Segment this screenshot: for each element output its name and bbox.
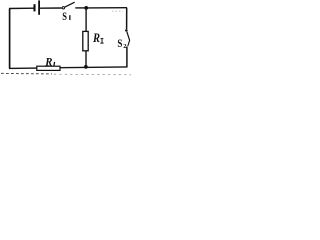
wire switch S1 to node A: [75, 7, 86, 9]
wire right vertical upper: [126, 8, 128, 29]
svg-text:R: R: [92, 31, 100, 45]
label S1: [62, 11, 70, 23]
resistor R2: [83, 31, 88, 50]
switch S2: [125, 29, 130, 46]
label S2: [117, 38, 126, 50]
wire node A down to R2: [85, 8, 87, 32]
svg-text:S: S: [117, 38, 122, 50]
wire bottom-left to R1: [9, 67, 37, 69]
wire right vertical lower: [126, 46, 128, 67]
wire top-left to battery: [9, 7, 34, 9]
svg-text:S: S: [62, 11, 67, 23]
label R1: [44, 57, 54, 69]
svg-text:R: R: [44, 57, 52, 69]
wire top right: [86, 7, 127, 9]
wire R2 down to node B: [85, 51, 87, 67]
node B junction dot: [84, 65, 88, 69]
resistor R1: [37, 66, 60, 70]
svg-text:2: 2: [123, 43, 126, 50]
battery: [35, 0, 40, 14]
label R2: [92, 31, 103, 45]
wire battery to switch S1: [40, 7, 62, 9]
switch S1: [62, 2, 74, 9]
wire left vertical: [9, 9, 11, 69]
scan artifact dashes (background): [1, 72, 52, 75]
wire R1 to bottom-right: [60, 66, 128, 69]
node A junction dot: [84, 6, 88, 10]
